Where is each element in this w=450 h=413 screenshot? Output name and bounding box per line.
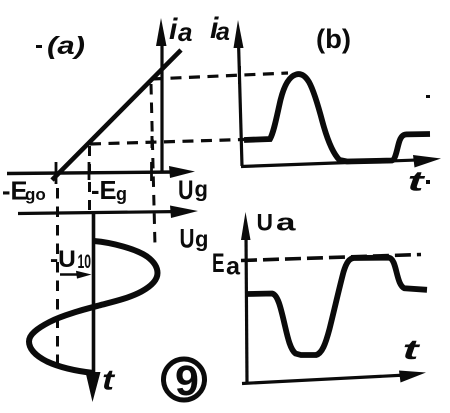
svg-text:9: 9 [175, 357, 199, 405]
svg-text:U: U [257, 210, 274, 237]
svg-text:(b): (b) [316, 24, 351, 54]
svg-text:t: t [102, 365, 116, 397]
svg-text:i: i [169, 13, 178, 46]
svg-text:-E: -E [2, 178, 28, 206]
svg-text:a: a [216, 18, 230, 46]
svg-text:go: go [25, 185, 46, 204]
svg-text:g: g [195, 227, 208, 252]
svg-text:-U: -U [50, 246, 76, 273]
svg-text:-E: -E [91, 177, 117, 205]
svg-text:E: E [212, 248, 225, 278]
svg-text:a: a [226, 253, 241, 281]
svg-text:g: g [116, 184, 127, 204]
svg-text:(a): (a) [47, 32, 85, 60]
svg-text:g: g [195, 177, 208, 202]
svg-text:a: a [178, 17, 192, 47]
svg-text:U: U [180, 224, 195, 254]
svg-text:a: a [276, 210, 296, 237]
svg-text:U: U [178, 175, 194, 205]
svg-text:10: 10 [78, 252, 92, 273]
